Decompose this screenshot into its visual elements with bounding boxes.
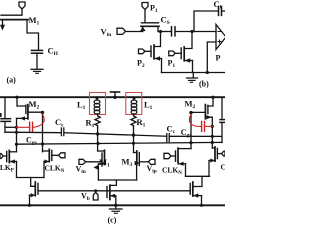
- wire merge to tail right: [193, 176, 202, 186]
- resistor R1 right: [131, 114, 136, 127]
- transistor M2 right source with arrow: [205, 116, 212, 118]
- wire CS to op-amp inverting input: [176, 31, 217, 33]
- capacitor CS: [171, 27, 173, 36]
- wire left branch lower: [4, 122, 6, 133]
- transistor tail right source with arrow: [193, 195, 202, 197]
- capacitor Cf: [218, 7, 220, 16]
- transistor P1 reset gate bar: [180, 48, 182, 59]
- transistor CLKP left channel: [8, 150, 10, 162]
- transistor M1 drain wire: [27, 20, 39, 50]
- port CLKP right: [222, 151, 226, 156]
- ground symbol (b): [192, 73, 194, 78]
- transistor M2 right gate bar: [207, 105, 209, 113]
- capacitor Cgs left (red): [17, 114, 45, 132]
- wire port to gate M1: [21, 9, 23, 15]
- red highlight box L1 left: [90, 93, 106, 115]
- svg-text:(b): (b): [199, 80, 209, 89]
- ground symbol (c): [115, 205, 117, 208]
- junction dots wire Q: [15, 143, 18, 146]
- transistor P1 pass channel: [141, 25, 159, 27]
- wire rail to M2 right gate: [208, 97, 213, 106]
- svg-text:(c): (c): [108, 216, 117, 225]
- node left internal: [41, 111, 44, 114]
- transistor CLKN right gate bar: [175, 151, 177, 161]
- transistor tail left gate bar: [37, 183, 39, 194]
- node Vb tap: [94, 189, 97, 192]
- inductor L1 right: [133, 97, 135, 100]
- port Vb: [93, 192, 98, 200]
- transistor M2 right drain stub: [191, 111, 205, 113]
- transistor CLKP right channel: [214, 147, 216, 161]
- port Vip: [148, 159, 155, 164]
- transistor CLKP right: drain: [212, 147, 215, 149]
- transistor P2 channel: [153, 45, 155, 59]
- ground rail (b): [162, 72, 226, 74]
- transistor CLKN left gate bar: [51, 150, 53, 160]
- label fragment left edge: [0, 113, 2, 117]
- transistor CLKP left: port: [0, 154, 3, 159]
- capacitor CH: [32, 49, 43, 51]
- wire gate to port CLKP right: [217, 153, 221, 155]
- wire diff merge right: [186, 175, 210, 177]
- transistor M2 left gate bar: [25, 105, 27, 113]
- wire port Vin to M1 gate: [86, 161, 102, 163]
- wire port to gate CLKN right: [171, 155, 176, 157]
- wire branch tap: [5, 126, 17, 128]
- wire R1 to node right: [133, 127, 135, 135]
- transistor CLKN left source with arrow: [44, 161, 49, 163]
- port clock input (a): [19, 2, 25, 9]
- transistor tail center source with arrow: [110, 195, 116, 197]
- transistor CLKP left source with arrow: [9, 161, 16, 163]
- transistor CLKN right channel: [177, 148, 179, 162]
- transistor M3 source with arrow: [136, 165, 138, 181]
- transistor M3 drain stub: [134, 152, 137, 154]
- transistor tail center channel: [109, 185, 111, 199]
- transistor tail right channel: [192, 182, 194, 196]
- wire Vin to P1 switch: [126, 31, 143, 33]
- junction dots ground rail: [28, 204, 31, 207]
- wire pass gate to CS: [158, 31, 171, 33]
- wire CH to ground: [36, 54, 38, 69]
- node between switch and CS: [159, 30, 162, 33]
- node summing junction: [190, 30, 193, 33]
- wire P coupling rail: [5, 131, 61, 134]
- transistor M1 source with arrow: [98, 164, 104, 180]
- node right internal: [189, 111, 192, 114]
- wire Q gate bus: [17, 142, 223, 144]
- wire column M1 left: [97, 134, 99, 151]
- transistor P1 reset drain wire: [185, 32, 193, 49]
- VDD supply tap: [111, 91, 120, 93]
- transistor CLKP left gate bar: [6, 151, 8, 161]
- transistor CLKN left channel: [48, 149, 50, 161]
- capacitor right branch: [220, 119, 225, 121]
- transistor M3 channel: [136, 151, 138, 165]
- wire left branch from rail: [4, 97, 6, 118]
- VDD rail top: [0, 96, 225, 98]
- ground (a): [31, 68, 43, 70]
- wire Vb bias bus: [38, 190, 107, 192]
- wire gate to port CLKN left: [52, 154, 59, 156]
- transistor CLKP right source with arrow: [209, 160, 215, 162]
- red highlight box L1 right: [126, 93, 142, 115]
- port CLKN left: [59, 153, 66, 158]
- wire Cf to output: [222, 10, 225, 12]
- transistor M2 right channel: [204, 105, 206, 119]
- node M2 right source: [211, 125, 214, 128]
- ground rail bottom: [0, 204, 225, 206]
- transistor tail right gate bar: [189, 183, 191, 194]
- port Vin: [117, 28, 126, 34]
- wire source column left: [16, 127, 18, 152]
- transistor M1 channel: [104, 150, 106, 164]
- svg-text:P: P: [216, 54, 221, 63]
- port P1 reset: [169, 51, 176, 56]
- transistor CLKP left drain: [9, 151, 16, 153]
- junction dots wire P: [15, 131, 18, 134]
- resistor R1 left: [95, 114, 100, 127]
- transistor P1 drain terminal: [157, 26, 159, 31]
- node coil top left: [95, 96, 98, 99]
- wire port P1b to gate: [175, 52, 181, 54]
- node M2R gate tap on rail: [211, 96, 214, 99]
- transistor tail left source with arrow: [30, 194, 36, 196]
- transistor M2 left drain stub: [28, 111, 43, 113]
- node M2 left source: [15, 126, 18, 129]
- svg-text:(a): (a): [7, 76, 17, 85]
- transistor CLKP right gate bar: [216, 148, 218, 158]
- transistor M1 channel: [1, 19, 29, 21]
- transistor P2 source with arrow: [154, 58, 162, 60]
- wire rail to M2 left gate: [17, 97, 26, 106]
- transistor M1 source terminal with arrow: [2, 20, 4, 27]
- transistor M2 left source with arrow: [17, 117, 28, 119]
- wire P right: [170, 135, 222, 137]
- port P2: [139, 49, 146, 54]
- wire merge to tail left: [31, 178, 36, 187]
- inductor L1 left: [96, 97, 98, 100]
- wire feedback up: [194, 11, 218, 32]
- wire diff merge left: [17, 177, 45, 179]
- port P1 top: [142, 3, 148, 10]
- transistor CLKN left: drain: [43, 150, 50, 152]
- transistor CLKN right source with arrow: [178, 163, 186, 165]
- wire P mid: [64, 133, 166, 136]
- transistor CLKN right drain: [178, 148, 191, 150]
- transistor P2 reset drain wire: [154, 32, 160, 47]
- transistor tail center gate bar: [106, 187, 108, 198]
- transistor M2 left channel: [27, 105, 29, 119]
- wire source merge M1 M3: [98, 179, 136, 181]
- capacitor Cc right: [166, 134, 168, 142]
- transistor P1 reset source with arrow: [184, 60, 192, 62]
- wire node column right: [190, 113, 192, 149]
- svg-text:CLKP: CLKP: [221, 163, 226, 174]
- transistor P1 pass gate plate: [142, 22, 159, 24]
- wire right branch lower: [221, 123, 223, 143]
- wire source column right: [211, 126, 213, 148]
- wire P1 port to gate: [144, 10, 146, 23]
- node M2L gate tap on rail: [15, 96, 18, 99]
- wire node column left: [42, 112, 44, 151]
- wire column M3 right: [133, 135, 135, 153]
- wire right branch from rail: [221, 97, 223, 119]
- transistor tail left channel: [34, 182, 36, 196]
- transistor P1 source terminal arrow: [142, 26, 144, 31]
- wire op-amp + input: [207, 42, 216, 73]
- capacitor Cc left: [60, 128, 62, 136]
- op-amp U1: [216, 25, 226, 50]
- transistor M1 gate plate: [1, 14, 22, 16]
- port Vin (c): [79, 159, 86, 164]
- transistor P1 reset channel: [183, 47, 185, 61]
- capacitor left branch: [1, 118, 11, 120]
- wire port P2 to gate: [145, 50, 151, 52]
- transistor P2 gate bar: [150, 46, 152, 57]
- wire merge down to tail drain: [110, 180, 116, 185]
- wire port Vip to M3 gate: [139, 161, 148, 163]
- capacitor Cgs right (red): [189, 114, 212, 131]
- node coil top right: [132, 96, 135, 99]
- transistor M1 gate bar: [101, 153, 103, 166]
- transistor CLKN right: port: [164, 153, 171, 158]
- transistor M3 gate bar: [138, 153, 140, 166]
- transistor M1 drain stub: [98, 150, 105, 152]
- wire port to gate CLKP left: [3, 155, 6, 157]
- wire R1 to node left: [97, 127, 99, 134]
